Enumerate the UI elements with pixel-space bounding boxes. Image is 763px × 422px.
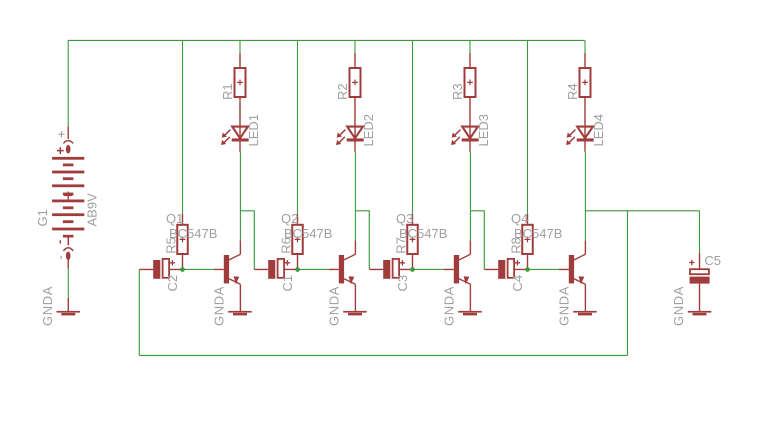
capacitor C4	[484, 259, 527, 279]
svg-text:R2: R2	[335, 83, 350, 100]
svg-text:C5: C5	[704, 253, 721, 268]
wire node to Q4 base	[529, 268, 560, 270]
wire feedback vertical	[627, 211, 629, 356]
resistor R6	[292, 214, 303, 270]
svg-text:GNDA: GNDA	[671, 286, 686, 326]
LED LED4	[566, 126, 594, 152]
ground GNDA Q1 emitter	[228, 311, 252, 316]
wire bus to R4	[584, 40, 586, 53]
LED LED3	[451, 126, 479, 152]
svg-text:BC547B: BC547B	[284, 226, 332, 241]
resistor R3	[465, 53, 476, 126]
svg-text:Q1: Q1	[166, 211, 183, 226]
wire node to Q3 base	[414, 268, 445, 270]
wire bus to R3	[469, 40, 471, 53]
svg-text:Q3: Q3	[396, 211, 413, 226]
ground GNDA Q3 emitter	[458, 311, 482, 316]
wire feedback bottom bus	[139, 354, 627, 356]
wire feedback bus to C2	[138, 269, 140, 355]
ground GNDA Q2 emitter	[343, 311, 367, 316]
svg-text:Q2: Q2	[281, 211, 298, 226]
resistor R8	[522, 214, 533, 270]
wire LED2 to Q2 collector	[354, 152, 356, 241]
wire bus to R1	[239, 40, 241, 53]
svg-text:GNDA: GNDA	[556, 286, 571, 326]
resistor R7	[407, 214, 418, 270]
wire node to Q2 base	[299, 268, 330, 270]
wire to C5	[699, 211, 701, 253]
transistor Q2	[329, 240, 355, 311]
wire battery positive to bus	[67, 40, 69, 126]
wire bus to R2	[354, 40, 356, 53]
battery G1 plus pin label	[58, 131, 64, 137]
svg-text:Q4: Q4	[511, 211, 528, 226]
svg-text:LED2: LED2	[361, 114, 376, 147]
wire LED3 to Q3 collector	[469, 152, 471, 241]
junction node R8/C4/Q4 base	[525, 267, 530, 272]
svg-text:AB9V: AB9V	[85, 193, 100, 227]
svg-text:R1: R1	[220, 83, 235, 100]
ground GNDA C5	[688, 311, 712, 316]
wire LED1 to Q1 collector	[239, 152, 241, 241]
svg-text:BC547B: BC547B	[169, 226, 217, 241]
LED LED2	[336, 126, 364, 152]
resistor R4	[580, 53, 591, 126]
svg-text:GNDA: GNDA	[40, 286, 55, 326]
ground GNDA Q4 emitter	[573, 311, 597, 316]
resistor R2	[350, 53, 361, 126]
wire bus to R6	[297, 40, 299, 214]
svg-text:GNDA: GNDA	[326, 286, 341, 326]
svg-text:BC547B: BC547B	[514, 226, 562, 241]
svg-text:LED3: LED3	[476, 114, 491, 147]
wire Q3 collector to C4	[470, 211, 484, 270]
svg-text:GNDA: GNDA	[211, 286, 226, 326]
wire Q4 collector to C5 branch	[585, 210, 699, 212]
capacitor C1	[254, 259, 297, 279]
transistor Q4	[559, 240, 585, 311]
wire VCC top bus	[68, 39, 585, 41]
wire node to Q1 base	[184, 268, 215, 270]
LED LED1	[221, 126, 249, 152]
battery G1	[52, 127, 84, 269]
wire bus to R7	[412, 40, 414, 214]
svg-text:R4: R4	[565, 83, 580, 100]
svg-text:C1: C1	[280, 275, 295, 292]
svg-text:C2: C2	[165, 275, 180, 292]
svg-text:C3: C3	[395, 275, 410, 292]
wire Q2 collector to C3	[355, 211, 369, 270]
junction node R7/C3/Q3 base	[410, 267, 415, 272]
wire LED4 to Q4 collector	[584, 152, 586, 241]
junction node R5/C2/Q1 base	[180, 267, 185, 272]
svg-text:LED4: LED4	[591, 114, 606, 147]
transistor Q1	[214, 240, 240, 311]
svg-text:LED1: LED1	[246, 114, 261, 147]
svg-text:G1: G1	[35, 209, 50, 226]
wire bus to R5	[182, 40, 184, 214]
svg-text:R3: R3	[450, 83, 465, 100]
wire Q1 collector to C1	[240, 211, 254, 270]
resistor R1	[235, 53, 246, 126]
ground GNDA battery	[57, 298, 81, 316]
capacitor C2	[139, 259, 182, 279]
svg-text:GNDA: GNDA	[441, 286, 456, 326]
transistor Q3	[444, 240, 470, 311]
junction node R6/C1/Q2 base	[295, 267, 300, 272]
svg-text:BC547B: BC547B	[399, 226, 447, 241]
capacitor C3	[369, 259, 412, 279]
resistor R5	[177, 214, 188, 270]
capacitor C5	[689, 253, 710, 311]
wire battery negative to ground	[67, 269, 69, 298]
svg-text:C4: C4	[510, 275, 525, 292]
wire bus to R8	[527, 40, 529, 214]
battery G1 minus pin label	[60, 256, 62, 259]
